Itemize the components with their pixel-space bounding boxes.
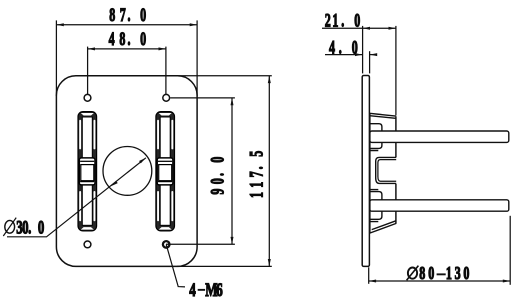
arrowhead on circle lower-left	[110, 181, 118, 188]
hole top-left	[84, 94, 91, 101]
dim 90.0 text (rotated)	[208, 157, 228, 195]
hole bottom-right	[163, 241, 170, 248]
tab below strap1	[370, 143, 382, 151]
tab below strap2	[370, 211, 382, 221]
right strap slot	[156, 112, 175, 231]
dim 90.0 extension lines	[170, 97, 235, 99]
svg-text:90.0: 90.0	[208, 157, 228, 195]
bracket left face against plate	[369, 114, 371, 233]
bracket right face segments	[395, 116, 397, 223]
dim 87.0 extension lines	[55, 20, 57, 96]
hole top-right	[163, 94, 170, 101]
svg-text:21.0: 21.0	[325, 11, 361, 31]
svg-text:4M6: 4M6	[189, 278, 222, 300]
dim 117.5 text (rotated)	[247, 151, 267, 198]
label 4-M6	[189, 278, 222, 300]
label dia 30.0	[3, 216, 44, 238]
tab above strap2	[370, 190, 382, 200]
C groove (double line)	[376, 157, 397, 183]
svg-text:87.0: 87.0	[109, 5, 146, 25]
dim 117.5 line	[268, 76, 270, 267]
dim 48.0 line	[88, 48, 166, 50]
center circle (30mm)	[103, 147, 152, 196]
dim 87.0 text	[109, 5, 146, 25]
dim 48.0 extension lines	[87, 47, 89, 95]
dim 21.0 line	[322, 27, 396, 29]
strap 2 (lower band)	[370, 200, 509, 211]
bracket bottom flange (double slanted line)	[370, 221, 397, 233]
mounting plate outline	[56, 76, 197, 267]
dim 80-130 extension lines	[368, 267, 370, 284]
dim 4.0 text	[329, 38, 358, 58]
svg-text:117.5: 117.5	[247, 151, 267, 198]
tab above strap1	[370, 124, 382, 131]
leader 4-M6	[166, 244, 185, 287]
hole bottom-left	[84, 241, 91, 248]
dim 87.0 line	[56, 24, 197, 26]
dim 80-130 text	[407, 263, 470, 283]
back plate (edge)	[362, 76, 369, 267]
dim 90.0 line	[231, 98, 233, 244]
dim 48.0 text	[109, 29, 147, 49]
dim 80-130 line	[369, 280, 511, 282]
svg-text:48.0: 48.0	[109, 29, 147, 49]
dim 4.0 extension line (right face of plate)	[369, 51, 371, 73]
arrowhead on circle upper-right	[139, 157, 147, 164]
leader line for diameter 30	[7, 158, 146, 237]
left strap slot	[78, 112, 97, 231]
strap 1 (upper band)	[370, 131, 509, 142]
dim 21.0 text	[325, 11, 361, 31]
dim 4.0 line + outside arrows	[325, 54, 362, 56]
svg-text:30.0: 30.0	[16, 216, 44, 238]
dim 21.0 extension lines	[362, 26, 364, 74]
bracket top flange (double slanted line)	[370, 113, 396, 118]
dim 117.5 extension lines	[177, 75, 272, 77]
